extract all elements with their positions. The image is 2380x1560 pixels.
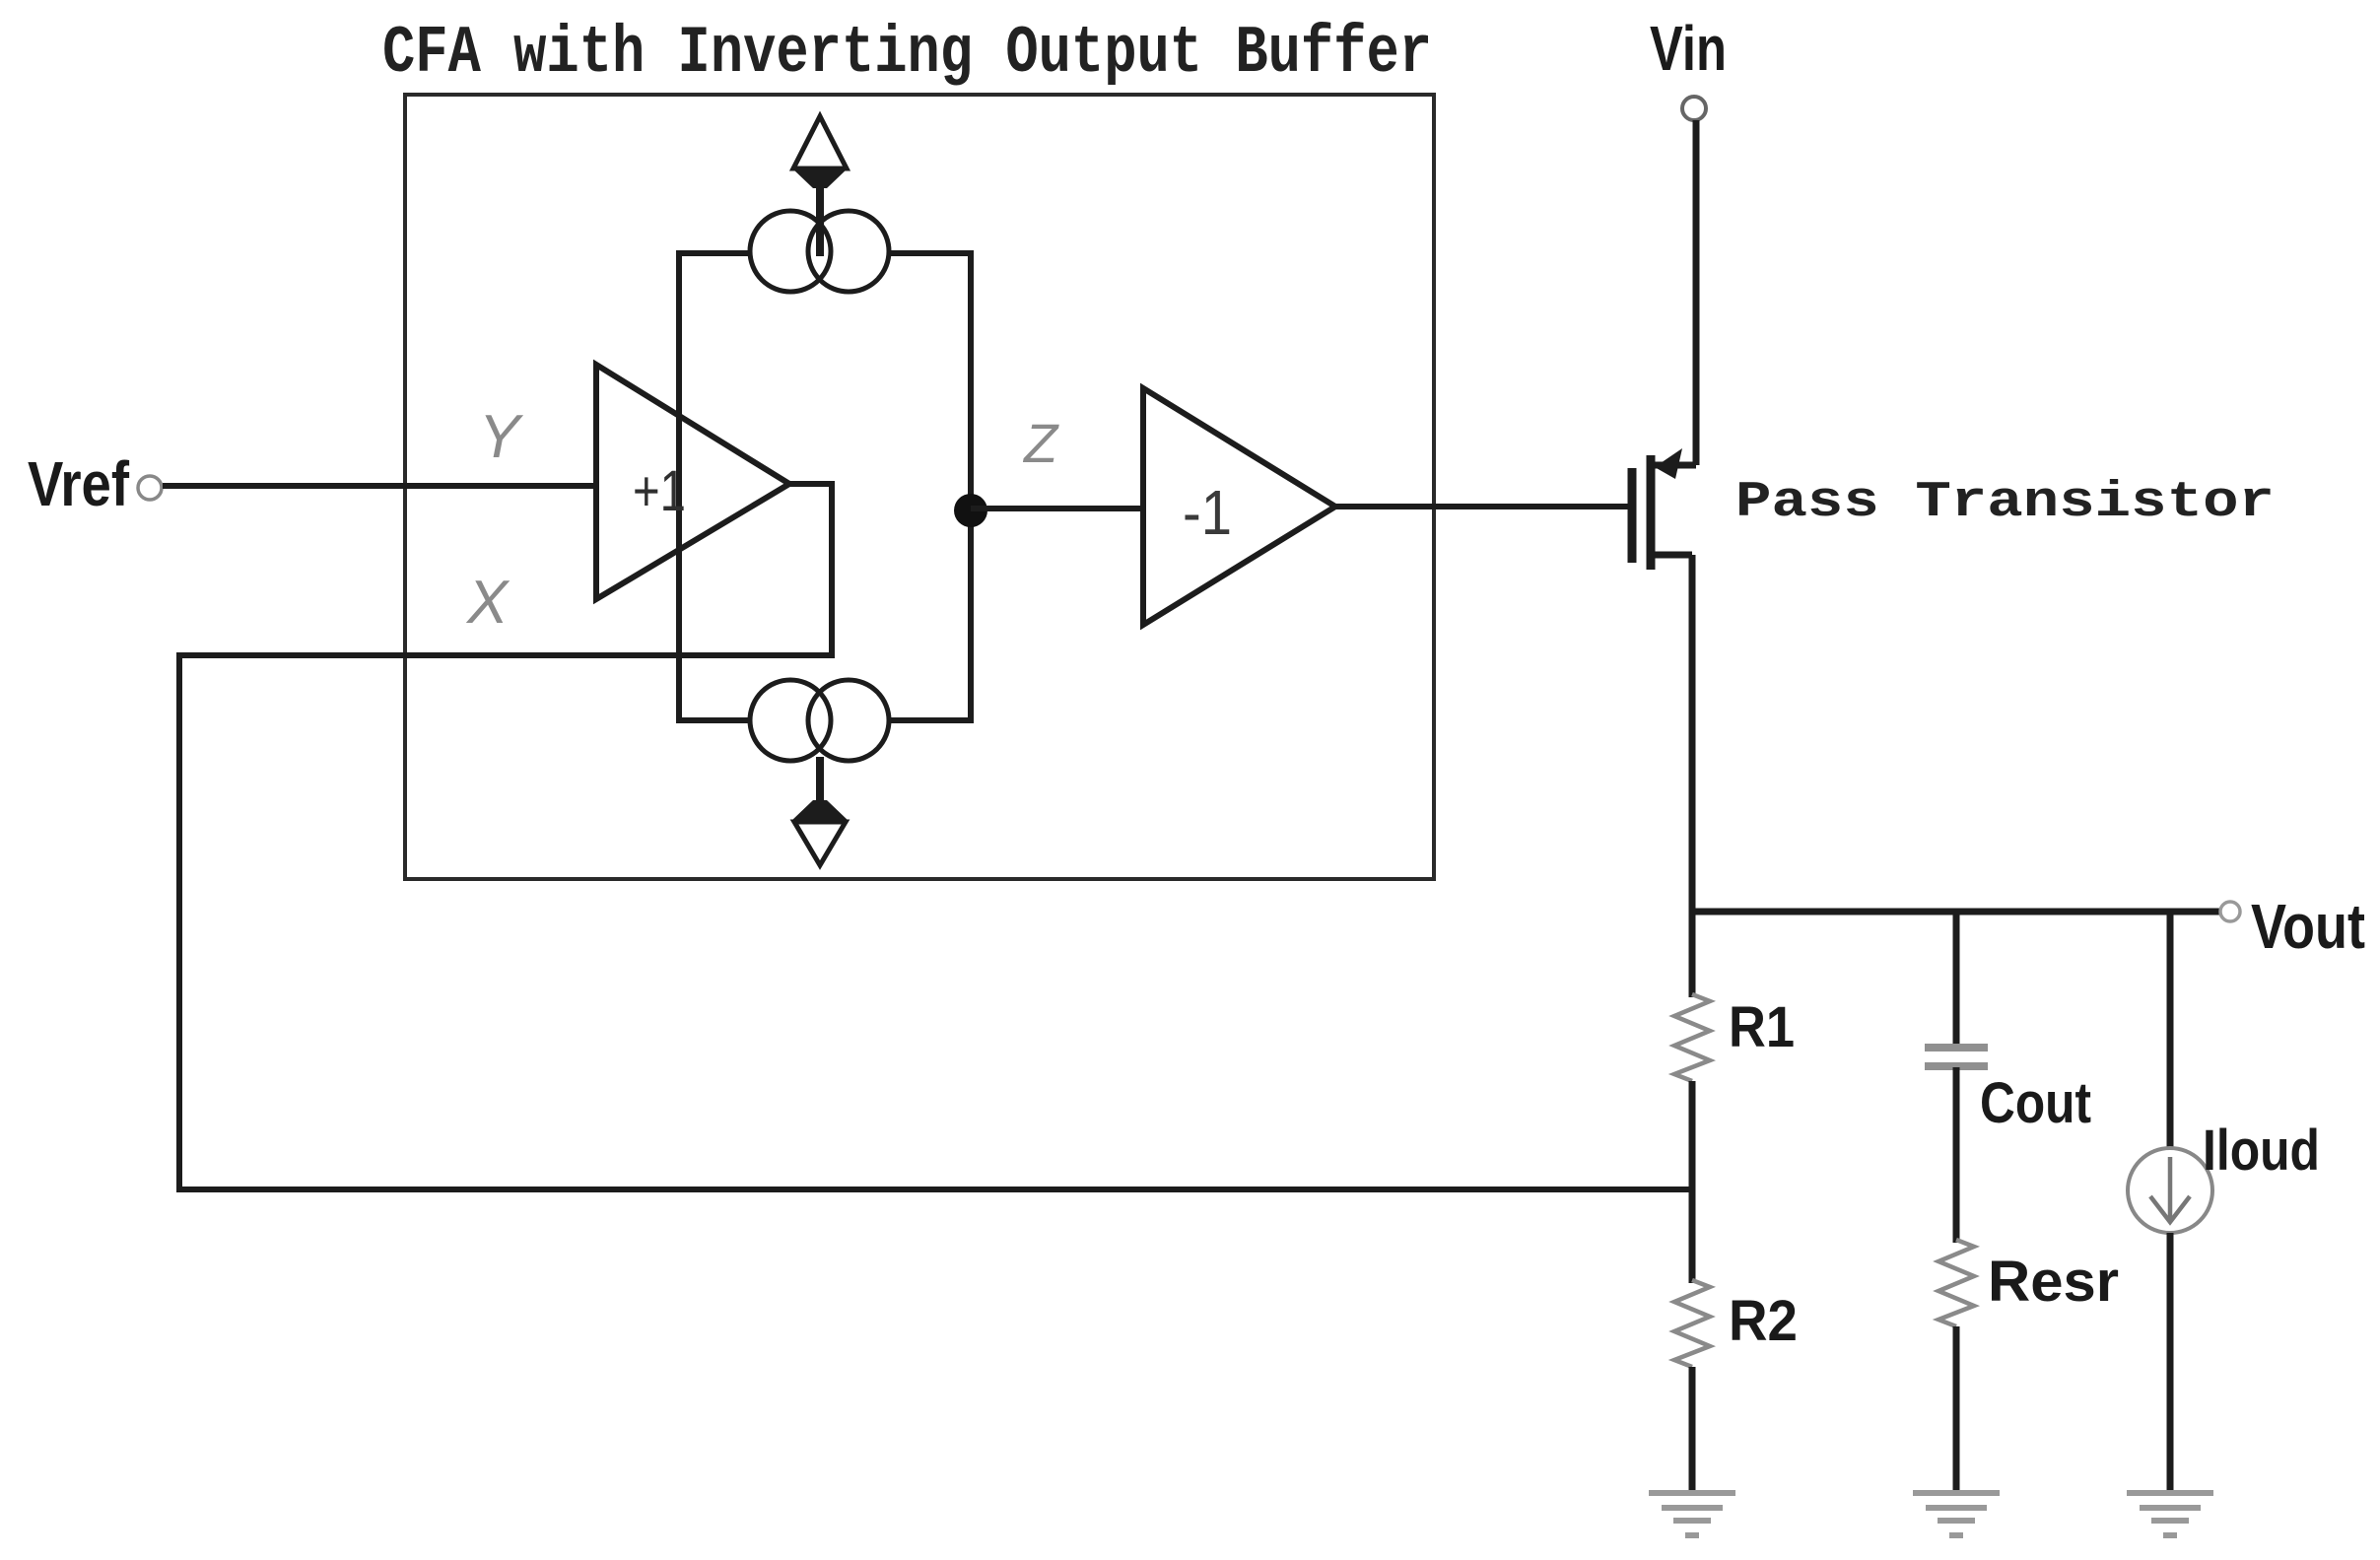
wire: Z to inverting buffer — [971, 506, 1143, 511]
label R1 — [1729, 995, 1795, 1059]
svg-text:-1: -1 — [1183, 477, 1232, 548]
wire: Vout rail to Iloud — [2167, 912, 2174, 1149]
title: CFA with Inverting Output Buffer — [382, 16, 1432, 92]
wire: Z rail (right vertical of mirror loop) — [968, 250, 974, 723]
resistor Resr — [1938, 1240, 1974, 1326]
Vout label — [2251, 891, 2365, 962]
resistor R1 — [1674, 994, 1710, 1081]
svg-text:Pass Transistor: Pass Transistor — [1735, 475, 2275, 531]
svg-text:R2: R2 — [1729, 1289, 1798, 1353]
ground under Iloud — [2127, 1493, 2213, 1535]
wire: X node horizontal — [179, 652, 835, 658]
transistor M1 drain leg — [1655, 552, 1692, 559]
svg-text:+1: +1 — [633, 459, 686, 523]
node Y label — [479, 403, 524, 471]
transistor M1 source leg — [1655, 462, 1696, 469]
resistor R2 — [1674, 1280, 1710, 1367]
wire: feedback left vertical — [176, 652, 182, 1192]
Vout terminal — [2220, 902, 2240, 921]
svg-text:X: X — [465, 569, 510, 637]
transistor M1 source arrow — [1655, 448, 1682, 479]
ground under R2 — [1649, 1493, 1735, 1535]
svg-text:R1: R1 — [1729, 995, 1795, 1059]
wire: feedback bottom horizontal to divider tap — [176, 1187, 1692, 1192]
wire: Vout rail — [1689, 909, 2220, 916]
label Pass Transistor — [1735, 475, 2275, 531]
wire: buffer supply rail (left vertical of mirror loop) — [676, 250, 682, 723]
ground under Resr — [1913, 1493, 2000, 1535]
capacitor Cout — [1925, 1048, 1988, 1066]
wire: bottom mirror left to supply rail — [676, 717, 750, 723]
label -1 — [1183, 477, 1232, 548]
wire: -1 output to pass transistor gate — [1335, 504, 1628, 509]
label Cout — [1980, 1071, 2091, 1135]
Vref label — [28, 448, 130, 519]
node X label — [465, 569, 510, 637]
label +1 — [633, 459, 686, 523]
node Z junction dot — [954, 494, 987, 527]
svg-text:Vout: Vout — [2251, 891, 2365, 962]
wire: Vin to transistor source — [1693, 120, 1700, 465]
svg-text:Vref: Vref — [28, 448, 130, 519]
wire: Resr to ground — [1953, 1326, 1960, 1493]
transistor M1 gate bar — [1628, 468, 1637, 563]
wire: R1 to divider tap — [1689, 1081, 1696, 1283]
op-amp inverting buffer -1 — [1143, 388, 1335, 625]
svg-text:Z: Z — [1022, 412, 1059, 474]
Vin terminal — [1682, 97, 1706, 120]
positive supply symbol (open triangle up) — [793, 116, 847, 169]
wire: supply arrow to top mirror — [816, 187, 824, 256]
negative supply symbol (open triangle down) — [794, 822, 846, 865]
svg-text:Cout: Cout — [1980, 1071, 2091, 1135]
CFA block boundary box — [405, 95, 1434, 879]
label Resr — [1988, 1250, 2119, 1314]
transistor M1 channel bar — [1647, 455, 1656, 570]
svg-text:Iloud: Iloud — [2203, 1119, 2320, 1183]
current source Iloud — [2128, 1148, 2212, 1233]
wire: top mirror left to supply rail — [676, 250, 750, 256]
wire: Iloud to ground — [2167, 1233, 2174, 1493]
svg-text:Y: Y — [479, 403, 524, 471]
label R2 — [1729, 1289, 1798, 1353]
wire: transistor drain to Vout rail — [1689, 555, 1696, 915]
wire: top mirror right to Z rail — [889, 250, 974, 256]
wire: bottom mirror right to Z rail — [889, 717, 974, 723]
svg-text:CFA with Inverting Output Buff: CFA with Inverting Output Buffer — [382, 16, 1432, 92]
wire: Vref to buffer Y input — [163, 483, 596, 489]
wire: buffer output stub — [789, 484, 832, 655]
label Iloud — [2203, 1119, 2320, 1183]
current mirror CM2 (bottom, two overlapping circles) — [750, 680, 889, 761]
wire: R2 to ground — [1689, 1367, 1696, 1493]
svg-text:Resr: Resr — [1988, 1250, 2119, 1314]
Vref input terminal — [138, 476, 162, 500]
wire: bottom mirror to negative supply arrow — [816, 757, 824, 808]
supply arrow head (filled, up) — [791, 168, 849, 188]
wire: Vout rail to R1 — [1689, 912, 1696, 997]
svg-text:Vin: Vin — [1650, 13, 1727, 84]
wire: Vout rail to Cout — [1953, 912, 1960, 1047]
negative supply arrow head (filled, down) — [791, 800, 849, 821]
op-amp buffer +1 — [596, 365, 789, 599]
wire: Cout to Resr — [1953, 1067, 1960, 1243]
Vin label — [1650, 13, 1727, 84]
current mirror CM1 (top, two overlapping circles) — [750, 211, 889, 292]
node Z label — [1022, 412, 1059, 474]
